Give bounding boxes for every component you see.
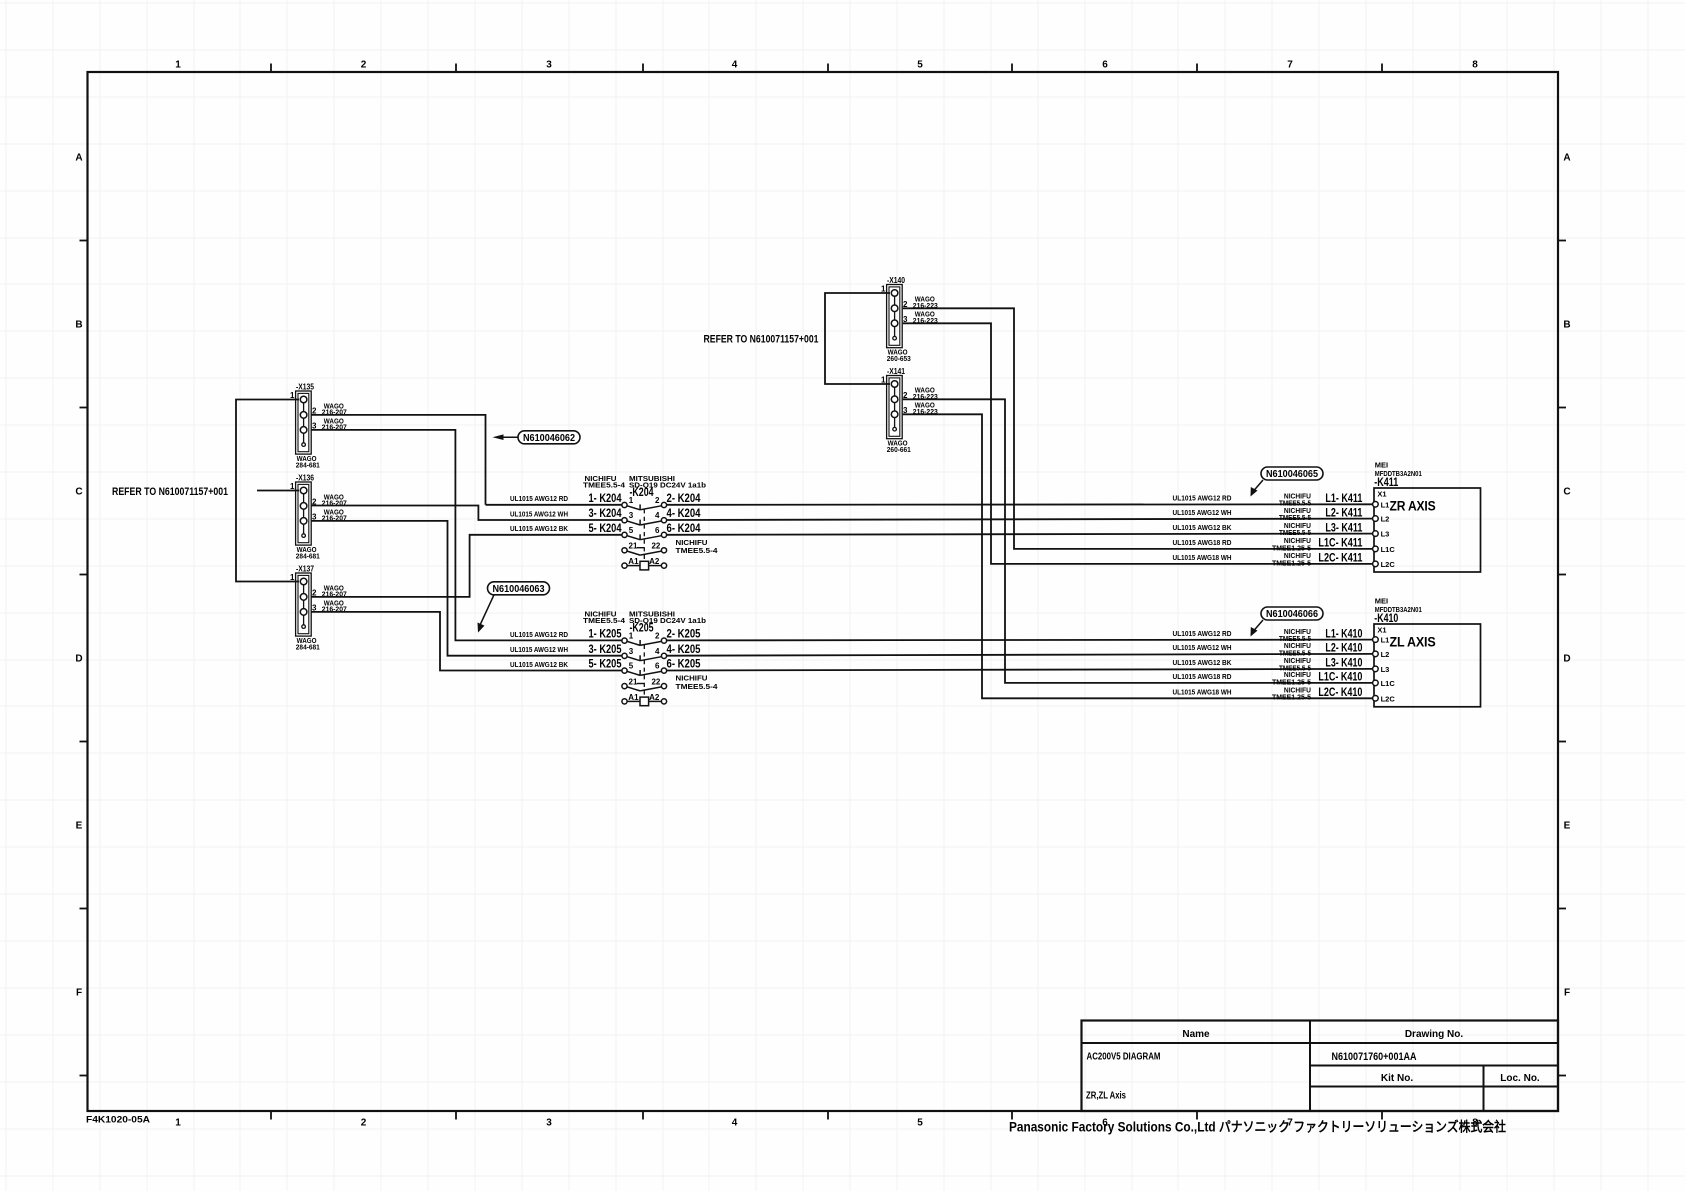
svg-text:3: 3 — [629, 511, 634, 520]
terminal K410 pin L2 — [1373, 650, 1390, 659]
svg-text:A2: A2 — [649, 557, 660, 566]
lug label NICHIFU (to K410 L2C) — [1272, 686, 1311, 702]
svg-text:REFER TO N610071157+001: REFER TO N610071157+001 — [704, 334, 819, 346]
svg-text:2- K204: 2- K204 — [667, 493, 701, 505]
svg-text:-X135: -X135 — [296, 382, 314, 392]
svg-text:UL1015 AWG18 RD: UL1015 AWG18 RD — [1173, 672, 1232, 681]
wire X140 pin1 to X141 pin1 (left bracket) — [825, 293, 890, 384]
column tick marks bottom — [271, 1111, 1382, 1120]
svg-text:UL1015 AWG12 BK: UL1015 AWG12 BK — [510, 524, 568, 533]
connector X141 pin 2 WAGO label — [913, 386, 938, 401]
svg-text:E: E — [1564, 821, 1571, 832]
svg-text:3: 3 — [629, 647, 634, 656]
svg-text:1: 1 — [881, 284, 886, 293]
lug label NICHIFU (to K411 L2) — [1279, 506, 1311, 522]
terminal K410 pin L3 — [1373, 665, 1390, 674]
svg-text:UL1015 AWG12 BK: UL1015 AWG12 BK — [1173, 523, 1232, 532]
connector X135 type label — [296, 454, 320, 469]
contactor K205 pole 1 contact (pins 1/2) — [622, 632, 667, 646]
connector X141 pin 3 WAGO label — [913, 401, 938, 416]
terminal K411 pin L1 — [1373, 500, 1390, 509]
contactor K204 aux contact pins 21/22 — [622, 542, 667, 556]
svg-text:L2C: L2C — [1381, 560, 1396, 569]
wire X141 pin3 to K410 L2C — [903, 414, 1373, 698]
contactor K204 pole 1 contact (pins 1/2) — [622, 496, 667, 510]
wire K205 pin4 to K410 L2 — [667, 654, 1373, 656]
svg-text:L2C- K410: L2C- K410 — [1318, 687, 1362, 699]
connector X141 type label — [887, 439, 911, 454]
svg-text:L1C: L1C — [1381, 545, 1396, 554]
svg-text:7: 7 — [1287, 60, 1293, 71]
lug label NICHIFU (to K411 L1) — [1279, 492, 1311, 508]
svg-text:4: 4 — [732, 60, 738, 71]
wire K204 pin6 to K411 L3 — [667, 534, 1373, 535]
svg-text:ZL AXIS: ZL AXIS — [1390, 635, 1436, 651]
svg-text:260-661: 260-661 — [887, 445, 911, 454]
svg-text:5: 5 — [629, 662, 634, 671]
lug label NICHIFU (to K411 L2C) — [1272, 551, 1311, 567]
wire X135 pin2 down to K204 pole1 — [311, 415, 485, 505]
svg-text:2: 2 — [361, 60, 367, 71]
svg-text:21: 21 — [629, 677, 638, 686]
svg-text:6: 6 — [655, 526, 660, 535]
svg-text:-X137: -X137 — [296, 564, 314, 574]
svg-text:6- K205: 6- K205 — [667, 659, 701, 671]
svg-text:X1: X1 — [1377, 489, 1386, 498]
svg-text:TMEE5.5-4: TMEE5.5-4 — [583, 616, 626, 625]
svg-text:4: 4 — [655, 647, 660, 656]
svg-text:UL1015 AWG12 BK: UL1015 AWG12 BK — [1173, 658, 1232, 667]
svg-text:284-681: 284-681 — [296, 643, 320, 652]
svg-text:21: 21 — [629, 542, 638, 551]
svg-text:8: 8 — [1472, 60, 1478, 71]
svg-text:UL1015 AWG12 WH: UL1015 AWG12 WH — [510, 645, 568, 654]
svg-text:1: 1 — [290, 573, 295, 582]
svg-text:284-681: 284-681 — [296, 552, 320, 561]
svg-text:N610046065: N610046065 — [1266, 468, 1318, 480]
contactor K204 pole 3 contact (pins 5/6) — [622, 526, 667, 540]
svg-text:5- K205: 5- K205 — [589, 659, 622, 671]
connector X140 pin 3 WAGO label — [913, 310, 938, 325]
svg-text:UL1015 AWG18 RD: UL1015 AWG18 RD — [1173, 538, 1232, 547]
svg-text:L3- K411: L3- K411 — [1325, 522, 1362, 534]
terminal K410 pin L1 — [1373, 636, 1390, 645]
contactor K205 coil A1/A2 — [622, 693, 667, 706]
column tick marks top — [271, 64, 1382, 73]
svg-text:Loc. No.: Loc. No. — [1500, 1073, 1540, 1084]
contactor K204 coil A1/A2 — [622, 557, 667, 570]
svg-text:1- K205: 1- K205 — [589, 629, 622, 641]
terminal K411 pin L2 — [1373, 515, 1390, 524]
connector X135 pin 3 WAGO label — [322, 416, 347, 431]
wire X141 pin2 to K410 L1C — [903, 399, 1373, 683]
balloon N610046065 — [1261, 467, 1323, 480]
wire K205 pin2 to K410 L1 — [667, 639, 1373, 642]
svg-text:ZR,ZL Axis: ZR,ZL Axis — [1086, 1091, 1126, 1102]
balloon N610046066 arrow — [1251, 620, 1264, 637]
wire X137 pin3 down to K205 pole3 — [311, 612, 622, 671]
svg-text:L2: L2 — [1381, 650, 1390, 659]
svg-text:L1: L1 — [1381, 500, 1390, 509]
svg-text:UL1015 AWG18 WH: UL1015 AWG18 WH — [1173, 688, 1232, 697]
svg-text:N610046063: N610046063 — [493, 583, 545, 595]
svg-text:ZR AXIS: ZR AXIS — [1390, 499, 1436, 515]
wire K204 pole1 input — [486, 504, 622, 506]
svg-text:UL1015 AWG12 RD: UL1015 AWG12 RD — [510, 494, 568, 503]
svg-text:UL1015 AWG12 RD: UL1015 AWG12 RD — [510, 630, 568, 639]
wire X136 pin2 jog to K204 pole2 — [311, 506, 622, 521]
terminal K411 pin L2C — [1373, 560, 1396, 569]
svg-text:5: 5 — [629, 526, 634, 535]
balloon N610046065 arrow — [1251, 480, 1264, 497]
connector X137 pin 2 WAGO label — [322, 583, 347, 598]
terminal block K410 box (ZL AXIS) — [1374, 624, 1481, 707]
svg-text:5: 5 — [917, 1118, 923, 1129]
lug label NICHIFU (to K410 L1C) — [1272, 670, 1311, 686]
balloon N610046066 — [1261, 607, 1323, 620]
svg-text:L1: L1 — [1381, 636, 1390, 645]
terminal K411 pin L3 — [1373, 530, 1390, 539]
svg-text:1- K204: 1- K204 — [589, 493, 622, 505]
svg-text:1: 1 — [881, 375, 886, 384]
svg-text:L3: L3 — [1381, 665, 1390, 674]
svg-text:4: 4 — [732, 1118, 738, 1129]
svg-text:E: E — [76, 821, 83, 832]
svg-text:2: 2 — [655, 496, 660, 505]
svg-text:4- K205: 4- K205 — [667, 644, 701, 656]
svg-text:L1- K410: L1- K410 — [1325, 628, 1362, 640]
svg-text:B: B — [75, 320, 82, 331]
wire X135 pin1 to X137 pin1 (left loop) — [236, 400, 299, 582]
svg-text:A1: A1 — [628, 693, 639, 702]
contactor K205 pole 3 contact (pins 5/6) — [622, 662, 667, 676]
svg-text:UL1015 AWG12 WH: UL1015 AWG12 WH — [1173, 508, 1232, 517]
svg-text:284-681: 284-681 — [296, 461, 320, 470]
connector X135 pin 2 WAGO label — [322, 401, 347, 416]
svg-text:F4K1020-05A: F4K1020-05A — [86, 1115, 150, 1126]
connector X141 body — [881, 375, 908, 438]
drawing border frame — [88, 72, 1559, 1111]
svg-text:22: 22 — [651, 677, 660, 686]
svg-text:REFER TO N610071157+001: REFER TO N610071157+001 — [112, 486, 228, 498]
svg-text:TMEE1.25-5: TMEE1.25-5 — [1272, 558, 1311, 567]
svg-text:22: 22 — [651, 542, 660, 551]
contactor K205 NICHIFU label right — [676, 674, 719, 691]
svg-text:2: 2 — [655, 632, 660, 641]
connector X135 body — [290, 391, 317, 454]
balloon N610046063 — [488, 582, 550, 595]
row labels left — [75, 153, 82, 999]
wire K204 pin4 to K411 L2 — [667, 519, 1373, 520]
svg-text:TMEE5.5-4: TMEE5.5-4 — [676, 682, 719, 691]
svg-text:L1- K411: L1- K411 — [1325, 493, 1362, 505]
svg-text:UL1015 AWG12 WH: UL1015 AWG12 WH — [510, 509, 568, 518]
contactor K205 header labels — [583, 610, 706, 635]
svg-text:5: 5 — [917, 60, 923, 71]
terminal block K410 header labels — [1374, 597, 1422, 626]
svg-text:X1: X1 — [1377, 625, 1386, 634]
svg-text:A1: A1 — [628, 557, 639, 566]
wire X140 pin2 to K411 L1C — [903, 308, 1373, 549]
svg-text:Name: Name — [1182, 1029, 1210, 1040]
svg-text:L2C- K411: L2C- K411 — [1318, 553, 1362, 565]
svg-text:2: 2 — [361, 1118, 367, 1129]
svg-text:B: B — [1563, 320, 1570, 331]
svg-text:F: F — [1564, 988, 1570, 999]
svg-text:C: C — [1563, 487, 1570, 498]
svg-text:C: C — [75, 487, 82, 498]
terminal block K411 box (ZR AXIS) — [1374, 488, 1481, 572]
svg-text:N610046066: N610046066 — [1266, 608, 1318, 620]
svg-text:UL1015 AWG18 WH: UL1015 AWG18 WH — [1173, 553, 1232, 562]
svg-text:1: 1 — [629, 496, 634, 505]
svg-text:4: 4 — [655, 511, 660, 520]
svg-text:3: 3 — [546, 1118, 552, 1129]
connector X136 type label — [296, 545, 320, 560]
lug label NICHIFU (to K411 L3) — [1279, 521, 1311, 537]
svg-text:L1C: L1C — [1381, 679, 1396, 688]
svg-text:3- K204: 3- K204 — [589, 508, 622, 520]
lug label NICHIFU (to K410 L2) — [1279, 641, 1311, 657]
wire X136 pin1 stub to refer note — [257, 490, 299, 492]
svg-text:F: F — [76, 988, 82, 999]
svg-text:4- K204: 4- K204 — [667, 508, 701, 520]
connector X136 body — [290, 482, 317, 545]
svg-text:UL1015 AWG12 WH: UL1015 AWG12 WH — [1173, 643, 1232, 652]
svg-text:Drawing No.: Drawing No. — [1405, 1029, 1464, 1040]
svg-text:UL1015 AWG12 RD: UL1015 AWG12 RD — [1173, 494, 1232, 503]
svg-text:UL1015 AWG12 BK: UL1015 AWG12 BK — [510, 660, 568, 669]
svg-text:L2: L2 — [1381, 515, 1390, 524]
svg-text:L2- K410: L2- K410 — [1325, 643, 1362, 655]
column labels bottom — [175, 1118, 1478, 1129]
title block outline — [1082, 1021, 1559, 1112]
connector X136 pin 2 WAGO label — [322, 492, 347, 507]
terminal block K411 header labels — [1374, 461, 1422, 490]
connector X136 pin 3 WAGO label — [322, 507, 347, 522]
svg-text:UL1015 AWG12 RD: UL1015 AWG12 RD — [1173, 629, 1232, 638]
svg-text:A: A — [1563, 153, 1570, 164]
svg-text:L1C- K411: L1C- K411 — [1318, 538, 1362, 550]
balloon N610046062 — [518, 431, 580, 444]
connector X140 type label — [887, 348, 911, 363]
svg-text:TMEE1.25-5: TMEE1.25-5 — [1272, 693, 1311, 702]
wire X137 pin2 up to K204 pole3 — [311, 535, 622, 597]
svg-text:AC200V5 DIAGRAM: AC200V5 DIAGRAM — [1087, 1052, 1161, 1063]
balloon N610046062 arrow — [493, 434, 519, 440]
lug label NICHIFU (to K410 L1) — [1279, 627, 1311, 643]
svg-text:D: D — [75, 654, 82, 665]
svg-text:-X140: -X140 — [887, 275, 905, 285]
row labels right — [1563, 153, 1570, 999]
svg-text:Kit No.: Kit No. — [1381, 1073, 1413, 1084]
contactor K204 header labels — [583, 474, 706, 499]
svg-text:260-653: 260-653 — [887, 354, 911, 363]
svg-text:2- K205: 2- K205 — [667, 629, 701, 641]
contactor K204 NICHIFU label right — [676, 538, 719, 555]
svg-text:1: 1 — [175, 1118, 181, 1129]
svg-text:Panasonic Factory Solutions Co: Panasonic Factory Solutions Co.,Ltd パナソニ… — [1009, 1119, 1506, 1135]
connector X140 pin 2 WAGO label — [913, 295, 938, 310]
svg-text:-X141: -X141 — [887, 366, 905, 376]
terminal K410 pin L1C — [1373, 679, 1396, 688]
svg-text:TMEE5.5-4: TMEE5.5-4 — [583, 480, 626, 489]
svg-text:6: 6 — [655, 662, 660, 671]
contactor K205 aux contact pins 21/22 — [622, 677, 667, 691]
wire K205 pin6 to K410 L3 — [667, 669, 1373, 671]
row tick marks right — [1558, 241, 1566, 1076]
connector X137 type label — [296, 636, 320, 651]
column labels top — [175, 60, 1478, 71]
svg-text:L2C: L2C — [1381, 694, 1396, 703]
wire X136 pin3 down to K205 pole2 — [311, 521, 622, 656]
svg-text:1: 1 — [629, 632, 634, 641]
svg-text:L2- K411: L2- K411 — [1325, 507, 1362, 519]
svg-text:L3: L3 — [1381, 530, 1390, 539]
contactor K204 mechanical linkage (dashed) — [643, 509, 645, 561]
svg-text:-X136: -X136 — [296, 473, 314, 483]
svg-text:1: 1 — [290, 391, 295, 400]
svg-text:L1C- K410: L1C- K410 — [1318, 672, 1362, 684]
contactor K205 mechanical linkage (dashed) — [643, 645, 645, 697]
connector X137 body — [290, 573, 317, 636]
svg-text:D: D — [1563, 654, 1570, 665]
lug label NICHIFU (to K410 L3) — [1279, 656, 1311, 672]
svg-text:1: 1 — [175, 60, 181, 71]
svg-text:6- K204: 6- K204 — [667, 523, 701, 535]
svg-text:3: 3 — [546, 60, 552, 71]
svg-text:L3- K410: L3- K410 — [1325, 658, 1362, 670]
terminal K411 pin L1C — [1373, 545, 1396, 554]
svg-text:5- K204: 5- K204 — [589, 523, 622, 535]
wire X135 pin3 down to K205 pole1 — [311, 430, 622, 641]
svg-text:N610071760+001AA: N610071760+001AA — [1332, 1051, 1417, 1063]
contactor K204 pole 2 contact (pins 3/4) — [622, 511, 667, 525]
svg-text:N610046062: N610046062 — [523, 432, 575, 444]
lug label NICHIFU (to K411 L1C) — [1272, 536, 1311, 552]
row tick marks left — [80, 241, 88, 1076]
svg-text:A: A — [75, 153, 82, 164]
svg-text:3- K205: 3- K205 — [589, 644, 622, 656]
balloon N610046063 arrow — [478, 595, 495, 633]
wire X140 pin3 to K411 L2C — [903, 323, 1373, 564]
svg-text:TMEE5.5-4: TMEE5.5-4 — [676, 546, 719, 555]
contactor K205 pole 2 contact (pins 3/4) — [622, 647, 667, 661]
svg-text:6: 6 — [1102, 60, 1108, 71]
connector X137 pin 3 WAGO label — [322, 598, 347, 613]
connector X140 body — [881, 284, 908, 347]
svg-text:1: 1 — [290, 482, 295, 491]
wire K204 pin2 to K411 L1 — [667, 503, 1373, 506]
terminal K410 pin L2C — [1373, 694, 1396, 703]
svg-text:A2: A2 — [649, 693, 660, 702]
